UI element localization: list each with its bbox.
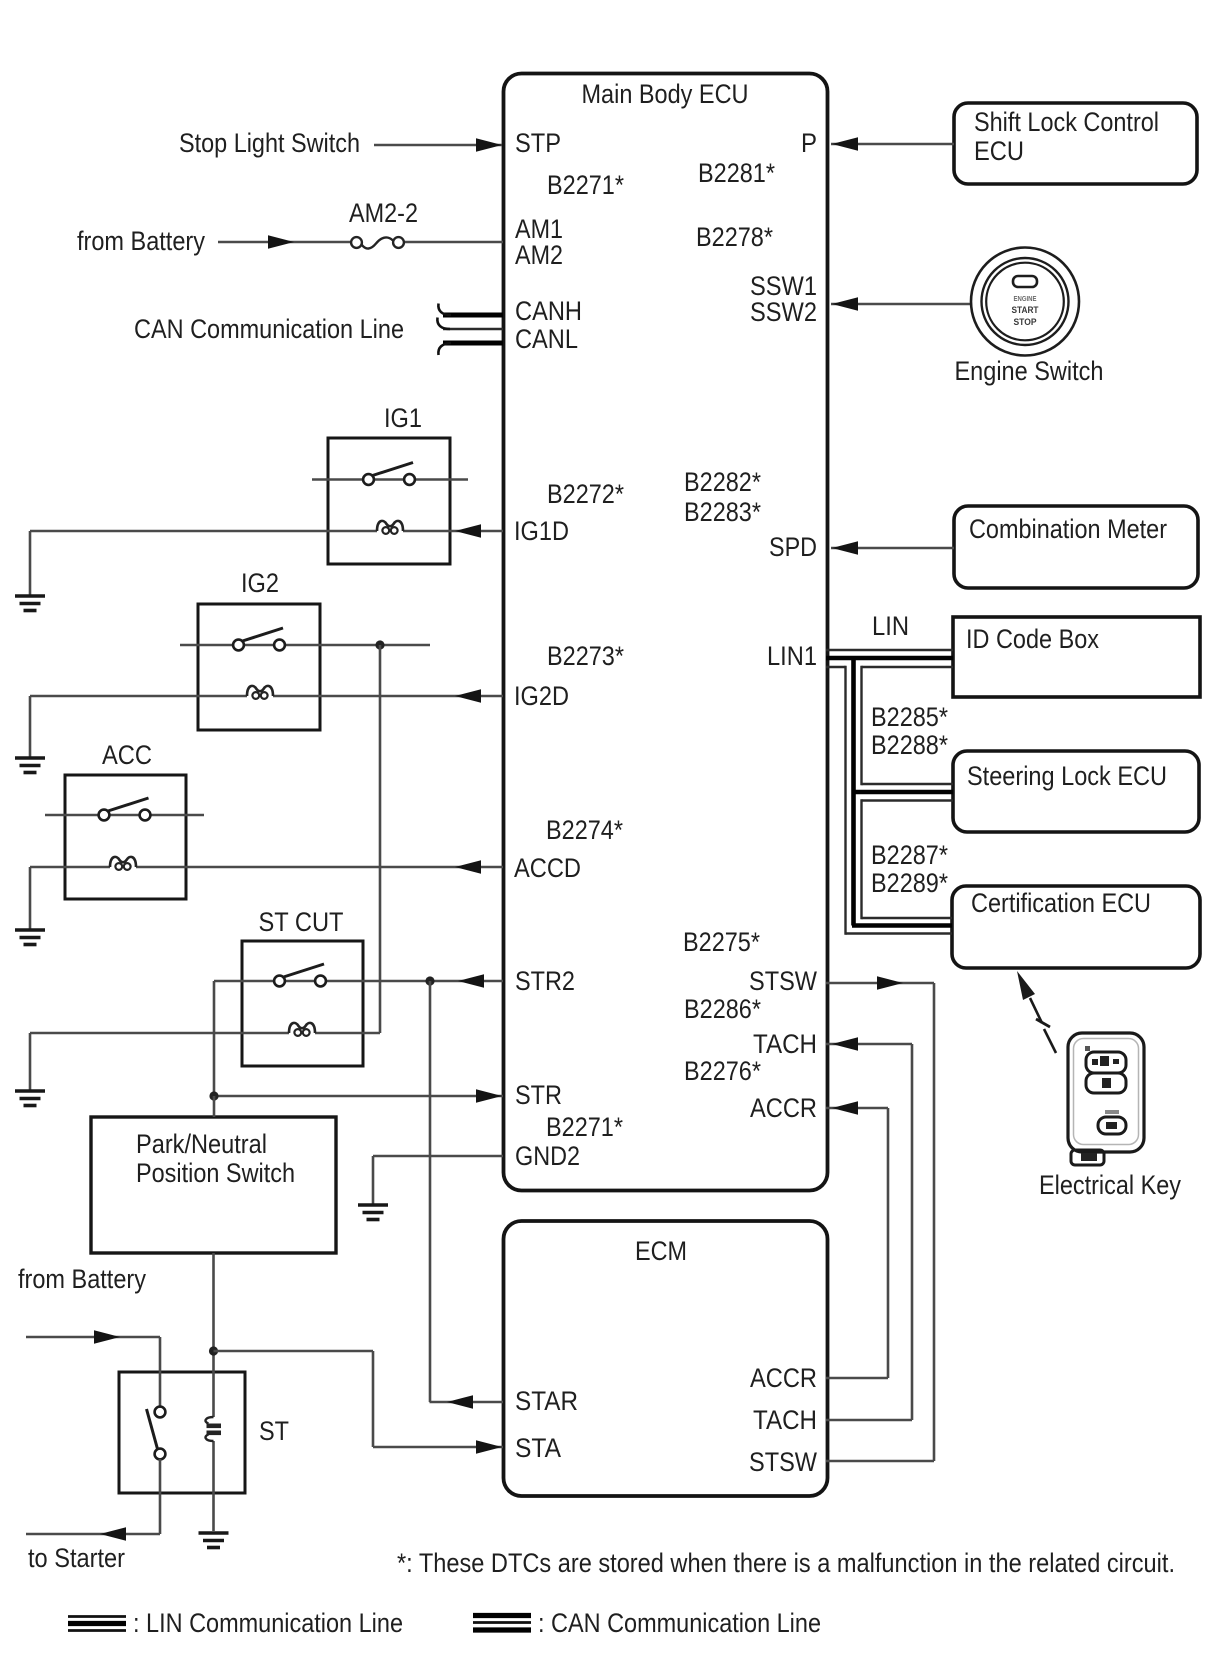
box Combination Meter [954, 506, 1198, 588]
wire ST CUT coil [30, 1032, 289, 1035]
svg-text:ST: ST [259, 1416, 289, 1446]
svg-text:IG2D: IG2D [514, 681, 569, 711]
box ID Code Box [953, 617, 1200, 697]
ECU box U1 Main Body ECU [504, 74, 828, 1191]
svg-text:to Starter: to Starter [28, 1543, 125, 1573]
svg-text:ID Code Box: ID Code Box [966, 624, 1099, 654]
relay ST box [119, 1372, 245, 1493]
svg-text:IG2: IG2 [241, 568, 279, 598]
svg-text:SSW2: SSW2 [750, 297, 817, 327]
CAN bus wire CANH/CANL [443, 313, 503, 318]
wire ACC coil to ACCD [30, 866, 110, 869]
wire ACC coil to ground [29, 867, 32, 929]
svg-text:Park/Neutral: Park/Neutral [136, 1129, 267, 1159]
wire ST switch to starter [159, 1459, 162, 1534]
relay ST CUT switch contact [214, 964, 503, 986]
junction node STR2 [425, 976, 434, 985]
fuse AM2-2 [351, 237, 404, 248]
svg-text:START: START [1012, 305, 1039, 316]
svg-text:TACH: TACH [753, 1029, 817, 1059]
junction node STR [209, 1091, 218, 1100]
wire STR junction to Park/Neutral switch [213, 1096, 216, 1117]
box Park/Neutral Position Switch [91, 1117, 336, 1253]
ground G5 GND2 [358, 1205, 388, 1220]
wire ACCR ECM to ECU [826, 1107, 888, 1110]
junction node IG2 switch output [375, 640, 384, 649]
wire IG2 coil to IG2D [30, 695, 247, 698]
relay IG1 coil [377, 521, 403, 534]
ground G1 [15, 596, 45, 611]
ground G6 ST coil [199, 1533, 229, 1548]
relay ST CUT coil [289, 1023, 315, 1036]
svg-text:B2286*: B2286* [684, 994, 761, 1024]
ECU box U2 ECM [504, 1221, 828, 1496]
svg-text:STR: STR [515, 1080, 562, 1110]
relay ST switch contact [147, 1407, 166, 1460]
svg-text:B2289*: B2289* [871, 868, 948, 898]
svg-text:GND2: GND2 [515, 1141, 580, 1171]
wire GND2 to ground [373, 1155, 503, 1158]
svg-text:STOP: STOP [1014, 317, 1038, 328]
relay ST CUT box [242, 941, 363, 1066]
svg-text:ST CUT: ST CUT [259, 907, 344, 937]
relay ACC box [65, 775, 186, 899]
svg-text:TACH: TACH [753, 1405, 817, 1435]
ground G4 [15, 1091, 45, 1106]
relay IG1 box [328, 438, 450, 564]
svg-text:B2274*: B2274* [546, 815, 623, 845]
relay IG2 coil [247, 686, 273, 699]
svg-text:: LIN Communication Line: : LIN Communication Line [133, 1608, 403, 1638]
svg-text:AM2-2: AM2-2 [349, 198, 418, 228]
svg-text:Shift Lock Control: Shift Lock Control [974, 107, 1159, 137]
svg-text:STR2: STR2 [515, 966, 575, 996]
svg-text:B2273*: B2273* [547, 641, 624, 671]
wire Park/Neutral switch to ST coil [212, 1253, 215, 1372]
svg-text:ECM: ECM [635, 1236, 687, 1266]
svg-text:B2281*: B2281* [698, 158, 775, 188]
relay IG1 switch contact [312, 463, 468, 485]
relay ACC switch contact [45, 798, 204, 820]
wire from Battery to AM1/AM2 [218, 241, 351, 244]
svg-text:P: P [801, 128, 817, 158]
relay ST coil wire [212, 1372, 215, 1417]
svg-text:Certification ECU: Certification ECU [971, 888, 1151, 918]
svg-text:IG1D: IG1D [514, 516, 569, 546]
svg-text:CANH: CANH [515, 296, 582, 326]
relay IG2 box [198, 604, 320, 730]
svg-text:B2285*: B2285* [871, 702, 948, 732]
svg-text:ACCR: ACCR [750, 1363, 817, 1393]
svg-text:ACCR: ACCR [750, 1093, 817, 1123]
wire from Battery to ST switch [26, 1336, 160, 1339]
svg-text:B2275*: B2275* [683, 927, 760, 957]
wire P to Shift Lock Control ECU [831, 143, 954, 146]
svg-text:STA: STA [515, 1433, 561, 1463]
svg-text:B2282*: B2282* [684, 467, 761, 497]
svg-text:B2276*: B2276* [684, 1056, 761, 1086]
wire STA into ECM [214, 1350, 374, 1353]
wire STSW ECU to ECM [826, 982, 934, 985]
svg-text:B2287*: B2287* [871, 840, 948, 870]
LIN bus vertical branch [844, 666, 846, 935]
wire IG2 switch to ST CUT coil [379, 645, 382, 1033]
svg-text:*: These DTCs are stored when: *: These DTCs are stored when there is a… [397, 1548, 1175, 1578]
wire ST CUT coil to ground [29, 1033, 32, 1090]
svg-text:B2271*: B2271* [547, 170, 624, 200]
svg-text:B2283*: B2283* [684, 497, 761, 527]
LIN bus branch to Certification ECU [862, 917, 953, 919]
svg-text:ENGINE: ENGINE [1014, 296, 1037, 303]
svg-text:Position Switch: Position Switch [136, 1158, 295, 1188]
svg-text:: CAN Communication Line: : CAN Communication Line [538, 1608, 821, 1638]
svg-text:ECU: ECU [974, 136, 1024, 166]
wire IG1 coil to ground [29, 531, 32, 595]
svg-text:from Battery: from Battery [18, 1264, 146, 1294]
box Certification ECU [952, 886, 1200, 968]
svg-text:CAN Communication Line: CAN Communication Line [134, 314, 404, 344]
legend LIN line symbol [68, 1615, 126, 1618]
svg-text:Engine Switch: Engine Switch [955, 356, 1104, 386]
svg-text:Combination Meter: Combination Meter [969, 514, 1167, 544]
wire Stop Light Switch to STP [374, 144, 502, 147]
svg-text:STSW: STSW [749, 1447, 817, 1477]
wire TACH ECM to ECU [826, 1043, 912, 1046]
arrow STR2 into ECU [458, 974, 484, 988]
junction node STA [209, 1346, 218, 1355]
wire STR2 junction down to STAR [429, 981, 432, 1402]
wire STAR from ECM [430, 1401, 504, 1404]
relay IG2 switch contact [180, 628, 430, 650]
lightning arrow Electrical Key to Certification ECU [1030, 998, 1056, 1053]
svg-text:LIN: LIN [872, 611, 909, 641]
wire ST CUT switch down to STR [213, 981, 216, 1096]
svg-text:ACCD: ACCD [514, 853, 581, 883]
svg-text:B2278*: B2278* [696, 222, 773, 252]
svg-text:LIN1: LIN1 [767, 641, 817, 671]
svg-text:B2288*: B2288* [871, 730, 948, 760]
ground G3 [15, 930, 45, 945]
svg-text:STSW: STSW [749, 966, 817, 996]
svg-text:IG1: IG1 [384, 403, 422, 433]
wire SPD from Combination Meter [831, 547, 954, 550]
electrical key fob [1068, 1033, 1144, 1165]
legend CAN line symbol [473, 1613, 531, 1618]
relay ST coil [206, 1417, 221, 1441]
svg-text:from Battery: from Battery [77, 226, 205, 256]
relay ACC coil [110, 857, 136, 870]
engine switch SW1 (push start button) [971, 248, 1079, 356]
svg-text:B2271*: B2271* [546, 1112, 623, 1142]
svg-text:STP: STP [515, 128, 561, 158]
svg-text:Main Body ECU: Main Body ECU [582, 79, 749, 109]
svg-text:Stop Light Switch: Stop Light Switch [179, 128, 360, 158]
wire IG1 coil to IG1D [30, 530, 377, 533]
svg-text:STAR: STAR [515, 1386, 578, 1416]
box Shift Lock Control ECU [954, 103, 1197, 184]
wire STR into ECU [214, 1095, 503, 1098]
svg-text:Steering Lock ECU: Steering Lock ECU [967, 761, 1167, 791]
svg-text:Electrical Key: Electrical Key [1039, 1170, 1181, 1200]
wire IG2 coil to ground [29, 696, 32, 757]
box Steering Lock ECU [953, 751, 1199, 832]
svg-text:CANL: CANL [515, 324, 578, 354]
svg-text:ACC: ACC [102, 740, 152, 770]
svg-text:SPD: SPD [769, 532, 817, 562]
ground G2 [15, 758, 45, 773]
svg-text:B2272*: B2272* [547, 479, 624, 509]
wire SSW1/SSW2 to Engine Switch [831, 303, 971, 306]
LIN bus wire LIN1 to ID Code Box [826, 649, 953, 651]
svg-text:AM2: AM2 [515, 240, 563, 270]
LIN bus branch to Steering Lock ECU [862, 783, 954, 785]
